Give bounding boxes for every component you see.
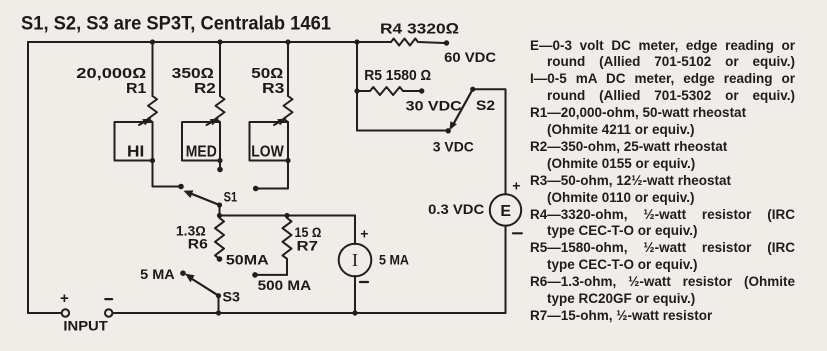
wire R4 branch vertical — [356, 42, 358, 91]
svg-text:60 VDC: 60 VDC — [444, 50, 496, 65]
svg-text:E: E — [500, 203, 511, 220]
wire S1 pole to node — [219, 205, 221, 216]
node 50MA tap — [217, 256, 223, 262]
parts list column — [530, 38, 795, 325]
node R3 top — [285, 39, 290, 44]
svg-text:I: I — [352, 250, 358, 270]
node R5 junction — [354, 88, 359, 93]
wire to 3VDC throw — [357, 91, 446, 131]
svg-text:S2: S2 — [476, 97, 495, 113]
node meter bus left — [217, 213, 222, 218]
wire left vertical — [27, 42, 29, 313]
wire bottom bus left — [28, 312, 62, 314]
resistor R1 — [152, 42, 154, 96]
svg-text:S1, S2, S3 are SP3T, Centralab: S1, S2, S3 are SP3T, Centralab 1461 — [21, 14, 331, 35]
svg-text:MED: MED — [186, 143, 217, 160]
terminal input plus — [62, 309, 69, 316]
svg-text:R1: R1 — [126, 80, 146, 97]
svg-text:+: + — [512, 177, 520, 193]
node 3 VDC throw — [446, 128, 451, 133]
svg-text:R6: R6 — [188, 236, 208, 252]
wire R3 to S1 throw — [256, 161, 288, 189]
svg-text:S1: S1 — [224, 188, 238, 204]
svg-text:0.3 VDC: 0.3 VDC — [428, 202, 484, 217]
svg-text:R4 3320Ω: R4 3320Ω — [380, 20, 459, 37]
node S1 throw LOW — [253, 186, 259, 192]
node 60 VDC terminal — [444, 40, 449, 45]
svg-text:R3: R3 — [262, 80, 284, 97]
node 30 VDC terminal — [419, 88, 424, 93]
node I meter bus junction — [352, 310, 357, 315]
switch S2 — [452, 89, 473, 127]
node S1 throw HI — [178, 184, 184, 190]
wire S2 to meter E — [473, 89, 506, 194]
wire R1 to S1 throw — [153, 161, 182, 187]
wire R7 to 500MA tap — [255, 274, 287, 276]
svg-text:500 MA: 500 MA — [258, 277, 312, 293]
node 5MA tap — [180, 270, 186, 276]
svg-text:R5 1580 Ω: R5 1580 Ω — [364, 68, 431, 84]
svg-text:R7: R7 — [297, 238, 319, 254]
node R1 top — [150, 39, 155, 44]
node R7 top — [284, 213, 289, 218]
svg-text:30 VDC: 30 VDC — [406, 98, 462, 113]
svg-text:+: + — [60, 290, 69, 307]
wire bottom bus right — [112, 312, 505, 314]
svg-text:R2: R2 — [194, 80, 216, 97]
wire top bus — [28, 41, 391, 43]
rheostat wiper box HI — [115, 122, 153, 161]
svg-text:INPUT: INPUT — [63, 318, 108, 334]
rheostat wiper box MED — [182, 122, 220, 161]
node R4 branch junction — [354, 39, 359, 44]
resistor R7 — [283, 216, 292, 275]
resistor R2 — [219, 42, 221, 96]
switch S3 — [189, 277, 219, 296]
node R2 top — [217, 39, 222, 44]
node S1 throw MED — [217, 167, 223, 173]
svg-text:50MA: 50MA — [226, 252, 269, 268]
wire E meter to bottom bus — [505, 226, 507, 313]
rheostat wiper box LOW — [250, 122, 289, 161]
wire meter bus — [220, 215, 356, 217]
svg-text:LOW: LOW — [251, 143, 284, 160]
svg-text:3 VDC: 3 VDC — [433, 139, 474, 155]
resistor R4 — [391, 39, 444, 46]
svg-text:+: + — [360, 226, 368, 242]
wire R2 stem to S1 throw — [219, 161, 221, 170]
svg-text:5 MA: 5 MA — [379, 252, 409, 268]
wire S3 pole to bus — [218, 296, 220, 313]
svg-text:HI: HI — [127, 143, 144, 160]
meter I — [354, 216, 356, 245]
terminal input minus — [105, 309, 112, 316]
node 500MA tap — [252, 272, 258, 278]
resistor R6 — [215, 216, 224, 259]
meter E — [490, 194, 521, 225]
svg-text:S3: S3 — [223, 289, 241, 305]
resistor R3 — [287, 42, 289, 96]
node S3 bus junction — [216, 310, 221, 315]
svg-text:5 MA: 5 MA — [140, 266, 175, 282]
switch S1 — [187, 192, 220, 205]
resistor R5 — [357, 87, 419, 95]
